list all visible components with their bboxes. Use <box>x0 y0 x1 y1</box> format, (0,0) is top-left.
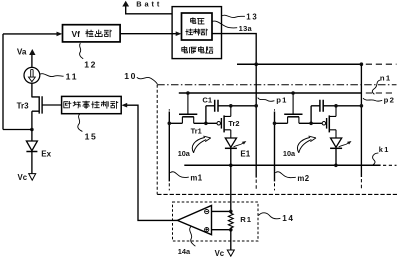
wire Tr1 source to data line cell2 <box>275 122 288 124</box>
wire p1 column dashed end <box>255 180 257 191</box>
leader squiggle 12 <box>80 43 84 59</box>
svg-text:13a: 13a <box>239 24 253 33</box>
leader squiggle 11 <box>40 74 64 77</box>
wire p1 column vertical <box>255 64 257 177</box>
current source I1 circle <box>24 67 40 83</box>
wire Batt branch <box>126 6 172 13</box>
wire data line m2 <box>274 112 276 182</box>
leader squiggle k1 <box>373 153 379 165</box>
node junction Tr1 gate cell1 <box>186 91 190 95</box>
panel box left dashed edge <box>156 85 158 195</box>
node junction data line cell2 <box>273 122 277 126</box>
svg-text:14: 14 <box>282 214 294 223</box>
wire Tr1 drain to Tr2 gate cell2 <box>299 122 322 124</box>
wire scan line n1 dashed continuation <box>366 92 395 94</box>
wire data line m2 dash above <box>274 109 276 110</box>
svg-text:k1: k1 <box>379 145 390 154</box>
node junction p2 on supply line <box>360 62 364 66</box>
svg-text:Tr3: Tr3 <box>17 101 30 110</box>
transistor Tr2 cell2 <box>322 122 326 126</box>
svg-text:m2: m2 <box>297 174 309 183</box>
node junction p1 on supply line <box>254 62 258 66</box>
op-amp 14a triangle <box>177 206 211 235</box>
wire cell2 LED to cathode line <box>335 148 337 165</box>
current source arrow symbol <box>31 70 33 78</box>
block Vf detection box <box>63 25 121 42</box>
svg-text:15: 15 <box>85 132 98 142</box>
svg-text:Tr2: Tr2 <box>228 119 239 128</box>
op-amp non-inverting input circle <box>205 228 209 232</box>
wire storage node vertical cell1 <box>205 106 207 124</box>
leader squiggle 10 <box>137 77 158 84</box>
diode Ex <box>26 141 37 151</box>
wire Vf output with arrowhead into voltage control <box>120 33 176 35</box>
LED E1 cell2 <box>331 138 342 147</box>
wire p2 column vertical <box>360 64 362 177</box>
capacitor C1 cell1 <box>206 105 215 107</box>
op-amp inverting input circle <box>205 210 209 214</box>
svg-text:Va: Va <box>17 47 27 56</box>
ground Vc left open triangle <box>29 174 36 181</box>
svg-text:n1: n1 <box>380 74 392 83</box>
wire Tr1 source to data line cell1 <box>169 122 182 124</box>
svg-text:13: 13 <box>246 12 258 21</box>
label m1 leader squiggle <box>170 172 189 178</box>
svg-text:10a: 10a <box>283 149 296 158</box>
node junction supply tap cell2 <box>360 104 364 108</box>
LED E1 cell1 <box>225 138 236 147</box>
LED light emission arrow cell1 <box>234 143 244 147</box>
svg-text:12: 12 <box>84 60 97 70</box>
node junction R1 top <box>229 210 233 214</box>
wire cap to supply column cell2 <box>336 105 361 107</box>
leader squiggle p1 <box>258 98 275 102</box>
block power supply circuit outer box 13 <box>172 7 221 59</box>
wire from voltage control to panel <box>212 34 256 65</box>
resistor R1 <box>228 211 233 229</box>
wire left supply vertical <box>2 34 4 130</box>
wire Tr3 source down <box>31 111 33 129</box>
wire op-amp bottom input <box>212 229 231 231</box>
wire Tr3 gate to drive control <box>42 104 62 106</box>
node junction cathode k1 cell2 <box>334 164 338 168</box>
arrow into drive control box <box>121 103 127 108</box>
wire to Vf detector with arrowhead <box>3 33 57 35</box>
leader squiggle 15 <box>78 114 83 131</box>
wire current source to Tr3 <box>31 83 33 97</box>
transistor Tr2 cell1 <box>217 122 221 126</box>
wire p2 column dashed end <box>360 179 362 190</box>
svg-text:14a: 14a <box>178 247 191 256</box>
svg-text:10: 10 <box>124 71 137 81</box>
panel box bottom dash-dot edge <box>157 193 397 195</box>
leader squiggle 14a <box>190 227 196 247</box>
node junction Tr1 gate cell2 <box>291 91 295 95</box>
node junction cathode k1 cell1 <box>229 164 233 168</box>
transistor Tr1 cell2 <box>292 93 294 114</box>
wire Va to current source <box>31 55 33 67</box>
wire data line m1 <box>168 112 170 182</box>
block current detection dashed box 14 <box>173 202 259 241</box>
wire data line m2 dashed end <box>274 183 276 190</box>
label power supply circuit text <box>182 47 188 53</box>
svg-text:m1: m1 <box>190 173 202 182</box>
block drive rate control box 15 <box>62 96 122 113</box>
arrow Batt up triangle <box>122 1 129 7</box>
transistor Tr1 cell1 <box>187 93 189 114</box>
wire cap to supply column cell1 <box>231 105 256 107</box>
leader squiggle 13 <box>222 15 245 17</box>
transistor Tr3 <box>32 96 42 113</box>
svg-text:Tr1: Tr1 <box>191 126 202 135</box>
svg-text:11: 11 <box>66 72 79 82</box>
svg-text:10a: 10a <box>178 149 191 158</box>
label voltage control text <box>191 18 196 24</box>
wire current supply line dashed continuation <box>366 63 397 65</box>
node junction storage node cell1 <box>204 122 208 126</box>
svg-text:p2: p2 <box>384 95 396 104</box>
svg-text:R1: R1 <box>240 215 252 224</box>
svg-text:p1: p1 <box>276 95 288 104</box>
wire Tr1 drain to Tr2 gate cell1 <box>194 122 217 124</box>
leader squiggle 14 <box>258 213 280 219</box>
node junction supply tap cell1 <box>254 104 258 108</box>
label drive rate control text <box>64 101 71 107</box>
leader squiggle p2 <box>363 98 382 101</box>
LED light emission arrow cell2 <box>339 143 349 147</box>
wire cathode line dashed continuation <box>383 164 397 166</box>
wire left vertical to node <box>3 129 32 131</box>
capacitor C1 cell2 <box>311 105 320 107</box>
wire Ex to Vc ground <box>31 152 33 174</box>
ground Vc bottom open triangle <box>227 250 234 256</box>
wire data line m1 dash above <box>168 109 170 110</box>
wire cathode line k1 <box>184 164 380 166</box>
wire storage node vertical cell2 <box>310 106 312 124</box>
node junction storage node cell2 <box>309 122 313 126</box>
arrow Va up triangle <box>29 49 35 55</box>
block voltage control inner box 13a <box>182 13 213 40</box>
wire cathode column to sense circuit <box>230 148 232 211</box>
leader squiggle n1 <box>372 80 380 94</box>
wire R1 to ground <box>230 230 232 250</box>
svg-text:Batt: Batt <box>136 0 162 9</box>
panel box top dash-dot edge <box>157 84 396 86</box>
node junction anode node cell1 <box>229 104 233 108</box>
wire scan line n1 <box>179 92 362 94</box>
wire data line m1 dashed end <box>168 183 170 190</box>
node junction data line cell1 <box>168 122 172 126</box>
svg-text:Vf: Vf <box>72 29 81 39</box>
wire op-amp output feedback <box>127 105 178 220</box>
wire node to Ex diode <box>31 130 33 142</box>
svg-text:Ex: Ex <box>41 149 51 158</box>
node junction R1 bottom <box>229 228 233 232</box>
node junction anode node cell2 <box>334 104 338 108</box>
svg-text:Vc: Vc <box>215 249 225 257</box>
wire current supply line <box>237 63 361 65</box>
label m2 leader squiggle <box>275 172 296 178</box>
svg-text:C1: C1 <box>202 96 212 105</box>
node junction Tr3 source <box>30 128 34 132</box>
svg-text:Vc: Vc <box>18 173 28 182</box>
wire op-amp top input <box>212 210 231 212</box>
svg-text:E1: E1 <box>240 149 250 158</box>
leader squiggle 13a <box>212 21 237 28</box>
